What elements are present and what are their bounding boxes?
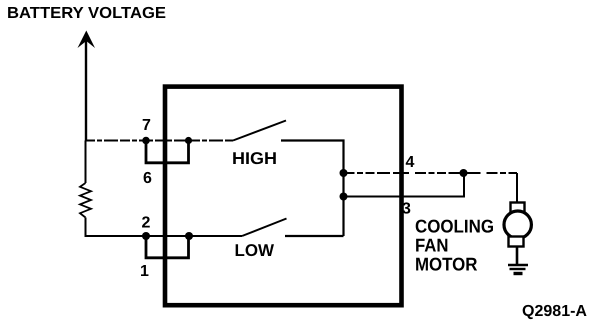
svg-text:1: 1 [140,263,149,280]
wire battery line to resistor [85,141,87,184]
HIGH switch fixed contact wire [281,141,344,237]
svg-text:COOLING: COOLING [415,216,494,237]
wire node 7 horizontal [85,140,233,142]
node 4 junction dot [340,169,348,177]
wire resistor to low branch corner [86,218,147,237]
motor M1 body [504,211,531,238]
svg-text:HIGH: HIGH [232,149,277,168]
node 2 junction dot [142,232,150,240]
svg-text:MOTOR: MOTOR [415,254,478,275]
node 1 junction dot [185,232,193,240]
svg-text:6: 6 [143,170,152,187]
pin 3 output wire [344,174,465,197]
svg-text:4: 4 [406,154,415,171]
node 7 junction dot [142,137,150,145]
jumper wire pins 7-6 [146,141,189,163]
HIGH switch blade [233,121,286,141]
wire node 2 horizontal [145,235,242,237]
junction dot pins 3-4 tie [460,169,468,177]
battery voltage arrow (power symbol) [78,31,96,142]
motor M1 top terminal [511,203,525,213]
svg-text:2: 2 [142,215,151,232]
svg-text:3: 3 [402,201,411,218]
wire motor to ground [516,247,519,265]
switch module box [165,87,402,306]
wire to motor [516,173,518,203]
LOW switch fixed contact wire [285,235,344,237]
svg-text:BATTERY VOLTAGE: BATTERY VOLTAGE [7,5,166,22]
resistor R1 [80,183,91,218]
ground [508,265,528,274]
jumper wire pins 2-1 [146,236,189,258]
svg-text:LOW: LOW [235,241,275,260]
svg-text:Q2981-A: Q2981-A [522,303,587,320]
svg-text:FAN: FAN [415,235,449,256]
pin 4 output wire [344,172,518,174]
LOW switch blade [242,219,287,237]
motor M1 bottom terminal [509,237,524,247]
node 6 junction dot [185,137,192,144]
node 3 junction dot [340,193,348,201]
svg-text:7: 7 [142,117,151,134]
